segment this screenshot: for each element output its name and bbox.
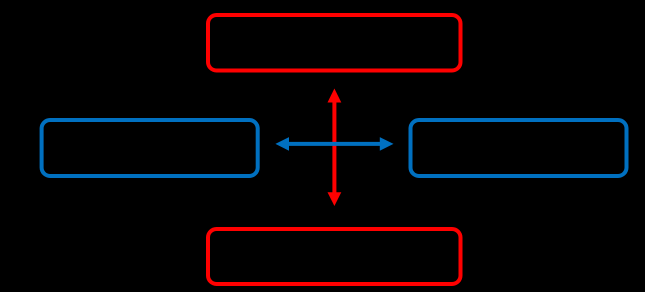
box right (blue rounded rectangle) — [411, 120, 627, 176]
box top (red rounded rectangle) — [208, 15, 461, 71]
box bottom (red rounded rectangle) — [208, 229, 461, 284]
box left (blue rounded rectangle) — [42, 120, 258, 176]
arrow vertical red double-headed — [328, 89, 342, 207]
arrow horizontal blue double-headed — [275, 137, 393, 151]
